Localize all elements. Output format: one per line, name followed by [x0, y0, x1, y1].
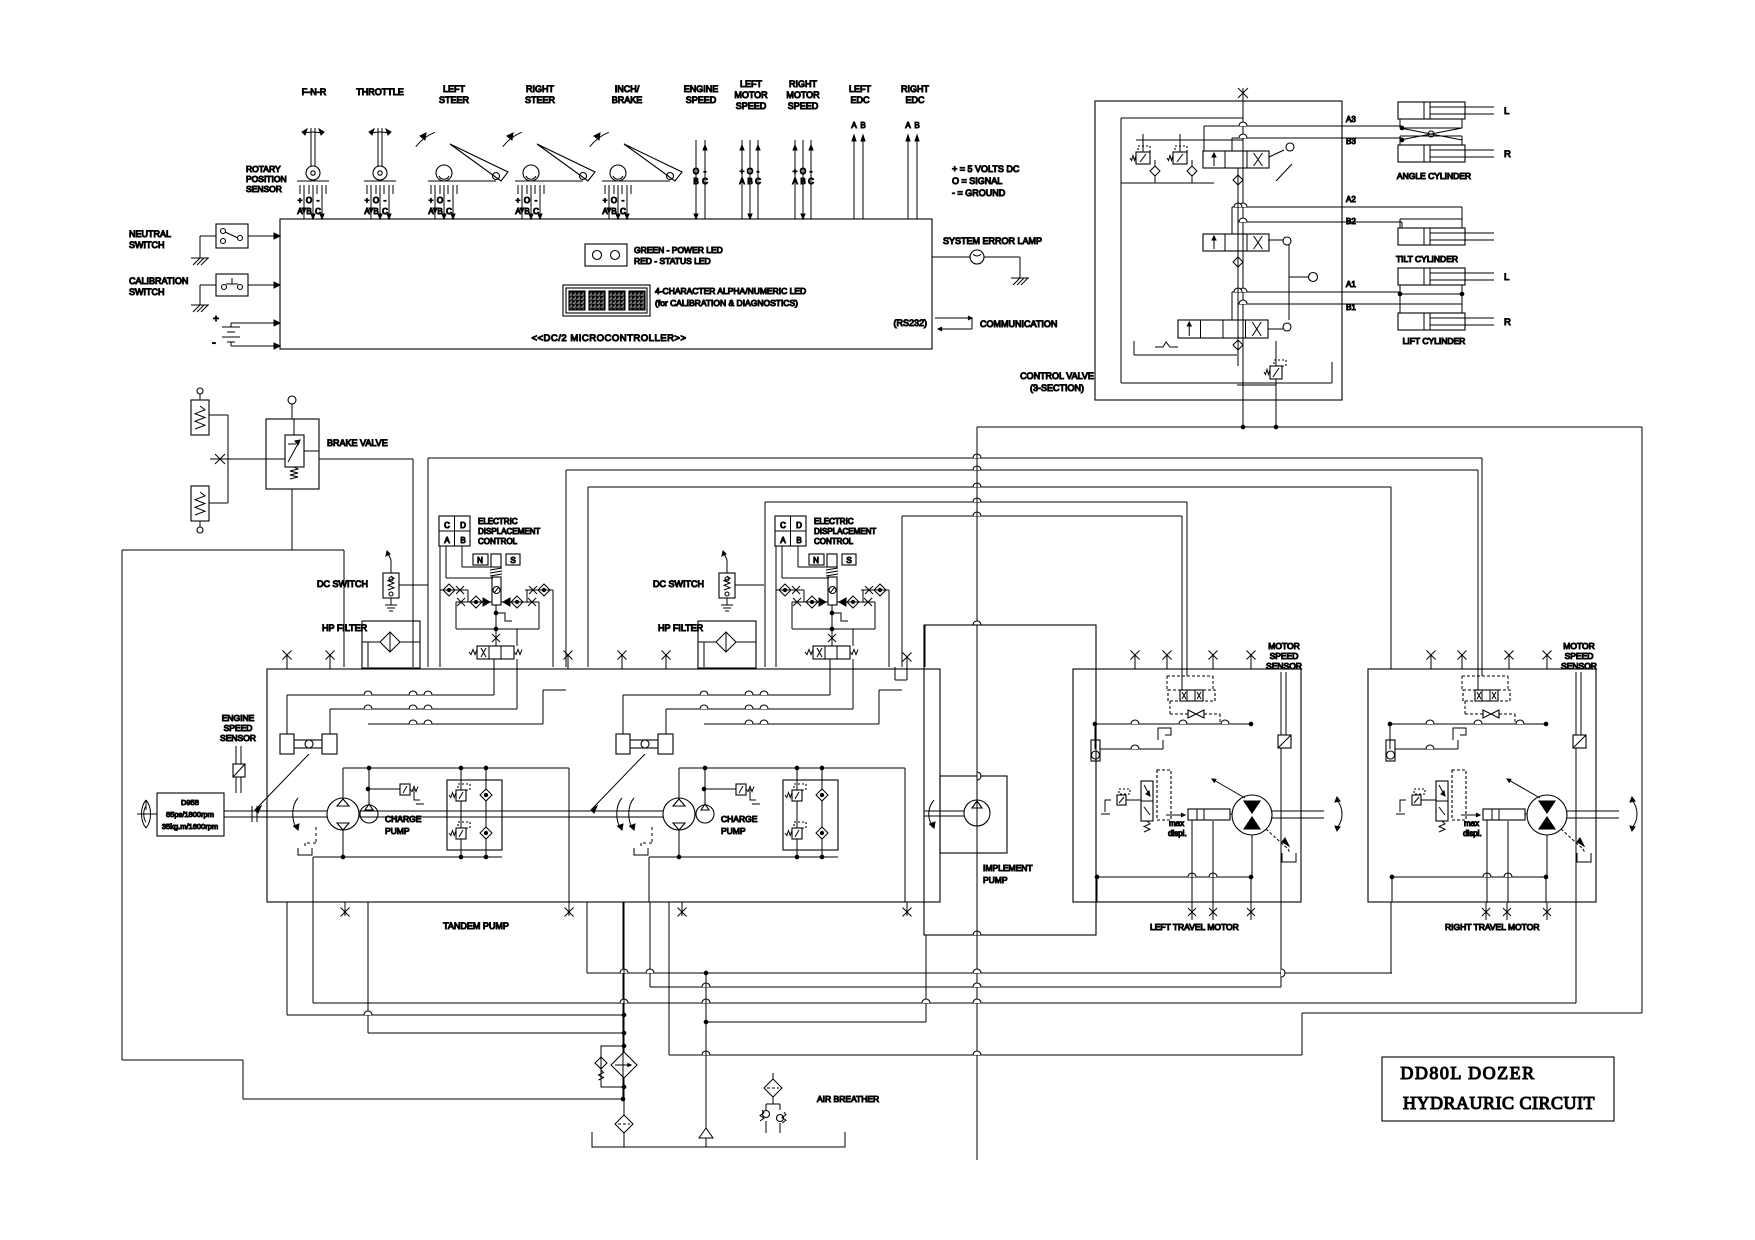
svg-text:B: B	[860, 121, 865, 130]
svg-text:4-CHARACTER ALPHA/NUMERIC LED: 4-CHARACTER ALPHA/NUMERIC LED	[655, 286, 806, 296]
svg-text:O: O	[693, 167, 699, 176]
svg-text:PUMP: PUMP	[385, 826, 410, 836]
svg-text:C: C	[755, 177, 761, 186]
svg-text:DISPLACEMENT: DISPLACEMENT	[814, 527, 876, 536]
svg-text:ANGLE CYLINDER: ANGLE CYLINDER	[1397, 171, 1471, 181]
svg-text:D: D	[460, 521, 466, 530]
svg-text:(for CALIBRATION & DIAGNOSTICS: (for CALIBRATION & DIAGNOSTICS)	[655, 298, 798, 308]
svg-text:SENSOR: SENSOR	[1266, 661, 1302, 671]
svg-text:R: R	[1504, 149, 1511, 160]
svg-text:-: -	[810, 167, 813, 176]
svg-text:CONTROL: CONTROL	[478, 537, 518, 546]
svg-text:SWITCH: SWITCH	[129, 240, 165, 250]
svg-text:AIR BREATHER: AIR BREATHER	[817, 1094, 879, 1104]
svg-text:-: -	[384, 196, 387, 205]
svg-text:LIFT CYLINDER: LIFT CYLINDER	[1403, 336, 1466, 346]
svg-text:B: B	[800, 177, 805, 186]
svg-text:A: A	[780, 536, 786, 545]
svg-text:+: +	[740, 167, 745, 176]
svg-text:-: -	[212, 337, 216, 349]
svg-text:O: O	[800, 167, 806, 176]
svg-text:displ.: displ.	[1463, 829, 1482, 838]
svg-text:-: -	[317, 196, 320, 205]
svg-text:F-N-R: F-N-R	[302, 87, 327, 97]
svg-text:EDC: EDC	[850, 95, 870, 105]
svg-text:R: R	[1504, 317, 1511, 328]
svg-text:O = SIGNAL: O = SIGNAL	[952, 176, 1002, 186]
svg-text:PUMP: PUMP	[983, 875, 1008, 885]
svg-text:DISPLACEMENT: DISPLACEMENT	[478, 527, 540, 536]
svg-text:B: B	[796, 536, 801, 545]
svg-text:SPEED: SPEED	[788, 101, 819, 111]
svg-text:DD80L DOZER: DD80L DOZER	[1400, 1063, 1535, 1083]
svg-text:MOTOR: MOTOR	[786, 90, 820, 100]
svg-text:-: -	[622, 196, 625, 205]
svg-text:SWITCH: SWITCH	[129, 287, 165, 297]
svg-text:STEER: STEER	[439, 95, 470, 105]
svg-text:SPEED: SPEED	[224, 723, 253, 733]
svg-text:INCH/: INCH/	[615, 84, 640, 94]
svg-text:O: O	[306, 196, 312, 205]
svg-text:S: S	[510, 556, 515, 565]
svg-text:A: A	[905, 121, 911, 130]
svg-text:-: -	[448, 196, 451, 205]
svg-text:GREEN - POWER LED: GREEN - POWER LED	[634, 245, 723, 255]
svg-text:C: C	[808, 177, 814, 186]
svg-text:A3: A3	[1346, 115, 1356, 124]
svg-text:D958: D958	[181, 798, 199, 807]
svg-text:RIGHT: RIGHT	[526, 84, 555, 94]
svg-text:RIGHT: RIGHT	[901, 84, 930, 94]
svg-text:SENSOR: SENSOR	[220, 733, 256, 743]
svg-text:+: +	[429, 196, 434, 205]
svg-text:SPEED: SPEED	[686, 95, 717, 105]
svg-text:HP FILTER: HP FILTER	[658, 623, 704, 633]
svg-text:-: -	[535, 196, 538, 205]
svg-text:RIGHT TRAVEL MOTOR: RIGHT TRAVEL MOTOR	[1445, 922, 1539, 932]
svg-text:C: C	[780, 521, 786, 530]
svg-text:A1: A1	[1346, 280, 1356, 289]
svg-text:+: +	[793, 167, 798, 176]
svg-text:C: C	[702, 177, 708, 186]
svg-text:(3-SECTION): (3-SECTION)	[1030, 383, 1084, 393]
svg-text:COMMUNICATION: COMMUNICATION	[980, 319, 1057, 329]
svg-text:POSITION: POSITION	[246, 174, 287, 184]
svg-text:SPEED: SPEED	[1565, 651, 1594, 661]
svg-text:A: A	[739, 177, 745, 186]
svg-text:B: B	[693, 177, 698, 186]
svg-text:SYSTEM ERROR LAMP: SYSTEM ERROR LAMP	[943, 236, 1042, 246]
svg-text:ELECTRIC: ELECTRIC	[814, 517, 854, 526]
svg-text:TANDEM PUMP: TANDEM PUMP	[443, 921, 509, 931]
svg-text:85ps/1800rpm: 85ps/1800rpm	[166, 810, 214, 819]
svg-text:BRAKE: BRAKE	[612, 95, 643, 105]
svg-text:CHARGE: CHARGE	[721, 814, 758, 824]
svg-text:HYDRAURIC CIRCUIT: HYDRAURIC CIRCUIT	[1403, 1093, 1595, 1113]
svg-text:DC SWITCH: DC SWITCH	[317, 579, 368, 589]
svg-text:BRAKE VALVE: BRAKE VALVE	[327, 438, 388, 448]
svg-text:-: -	[757, 167, 760, 176]
svg-text:HP FILTER: HP FILTER	[322, 623, 368, 633]
svg-text:ENGINE: ENGINE	[222, 713, 255, 723]
svg-text:NEUTRAL: NEUTRAL	[129, 229, 171, 239]
svg-text:+: +	[365, 196, 370, 205]
svg-text:THROTTLE: THROTTLE	[356, 87, 404, 97]
svg-text:STEER: STEER	[525, 95, 556, 105]
svg-text:LEFT: LEFT	[443, 84, 466, 94]
svg-text:A: A	[792, 177, 798, 186]
svg-text:B: B	[914, 121, 919, 130]
svg-text:O: O	[747, 167, 753, 176]
svg-text:CONTROL VALVE: CONTROL VALVE	[1020, 371, 1094, 381]
svg-text:+: +	[213, 314, 219, 325]
svg-text:SENSOR: SENSOR	[246, 184, 282, 194]
svg-text:LEFT TRAVEL MOTOR: LEFT TRAVEL MOTOR	[1150, 922, 1239, 932]
svg-text:CHARGE: CHARGE	[385, 814, 422, 824]
svg-text:+ = 5 VOLTS DC: + = 5 VOLTS DC	[952, 164, 1020, 174]
svg-text:A: A	[851, 121, 857, 130]
svg-text:CONTROL: CONTROL	[814, 537, 854, 546]
svg-text:B: B	[747, 177, 752, 186]
svg-text:O: O	[524, 196, 530, 205]
svg-text:SENSOR: SENSOR	[1561, 661, 1597, 671]
svg-text:ROTARY: ROTARY	[246, 164, 281, 174]
svg-text:L: L	[1504, 272, 1509, 283]
svg-text:B: B	[460, 536, 465, 545]
svg-text:DC SWITCH: DC SWITCH	[653, 579, 704, 589]
svg-text:L: L	[1504, 106, 1509, 117]
svg-text:+: +	[603, 196, 608, 205]
svg-text:displ.: displ.	[1168, 829, 1187, 838]
svg-text:max: max	[1464, 819, 1479, 828]
svg-text:SPEED: SPEED	[1270, 651, 1299, 661]
svg-text:N: N	[477, 556, 483, 565]
svg-text:+: +	[516, 196, 521, 205]
svg-text:O: O	[611, 196, 617, 205]
svg-text:+: +	[298, 196, 303, 205]
svg-text:MOTOR: MOTOR	[734, 90, 768, 100]
svg-text:RIGHT: RIGHT	[789, 79, 818, 89]
svg-text:ENGINE: ENGINE	[684, 84, 719, 94]
svg-text:O: O	[437, 196, 443, 205]
svg-text:-: -	[704, 167, 707, 176]
svg-text:max: max	[1169, 819, 1184, 828]
svg-text:A: A	[444, 536, 450, 545]
svg-text:<<DC/2 MICROCONTROLLER>>: <<DC/2 MICROCONTROLLER>>	[531, 333, 686, 344]
svg-text:ELECTRIC: ELECTRIC	[478, 517, 518, 526]
svg-text:C: C	[444, 521, 450, 530]
svg-text:LEFT: LEFT	[849, 84, 872, 94]
svg-text:MOTOR: MOTOR	[1563, 641, 1594, 651]
svg-text:PUMP: PUMP	[721, 826, 746, 836]
svg-text:A2: A2	[1346, 195, 1356, 204]
svg-text:35kg.m/1600rpm: 35kg.m/1600rpm	[162, 822, 218, 831]
svg-text:LEFT: LEFT	[740, 79, 763, 89]
svg-text:(RS232): (RS232)	[893, 318, 927, 328]
svg-text:CALIBRATION: CALIBRATION	[129, 276, 188, 286]
svg-text:SPEED: SPEED	[736, 101, 767, 111]
svg-text:S: S	[846, 556, 851, 565]
svg-text:N: N	[813, 556, 819, 565]
svg-text:IMPLEMENT: IMPLEMENT	[983, 863, 1033, 873]
svg-text:D: D	[796, 521, 802, 530]
svg-text:O: O	[373, 196, 379, 205]
svg-text:RED - STATUS LED: RED - STATUS LED	[634, 256, 711, 266]
svg-text:TILT CYLINDER: TILT CYLINDER	[1396, 254, 1458, 264]
svg-text:MOTOR: MOTOR	[1268, 641, 1299, 651]
svg-text:- = GROUND: - = GROUND	[952, 188, 1006, 198]
svg-text:EDC: EDC	[905, 95, 925, 105]
